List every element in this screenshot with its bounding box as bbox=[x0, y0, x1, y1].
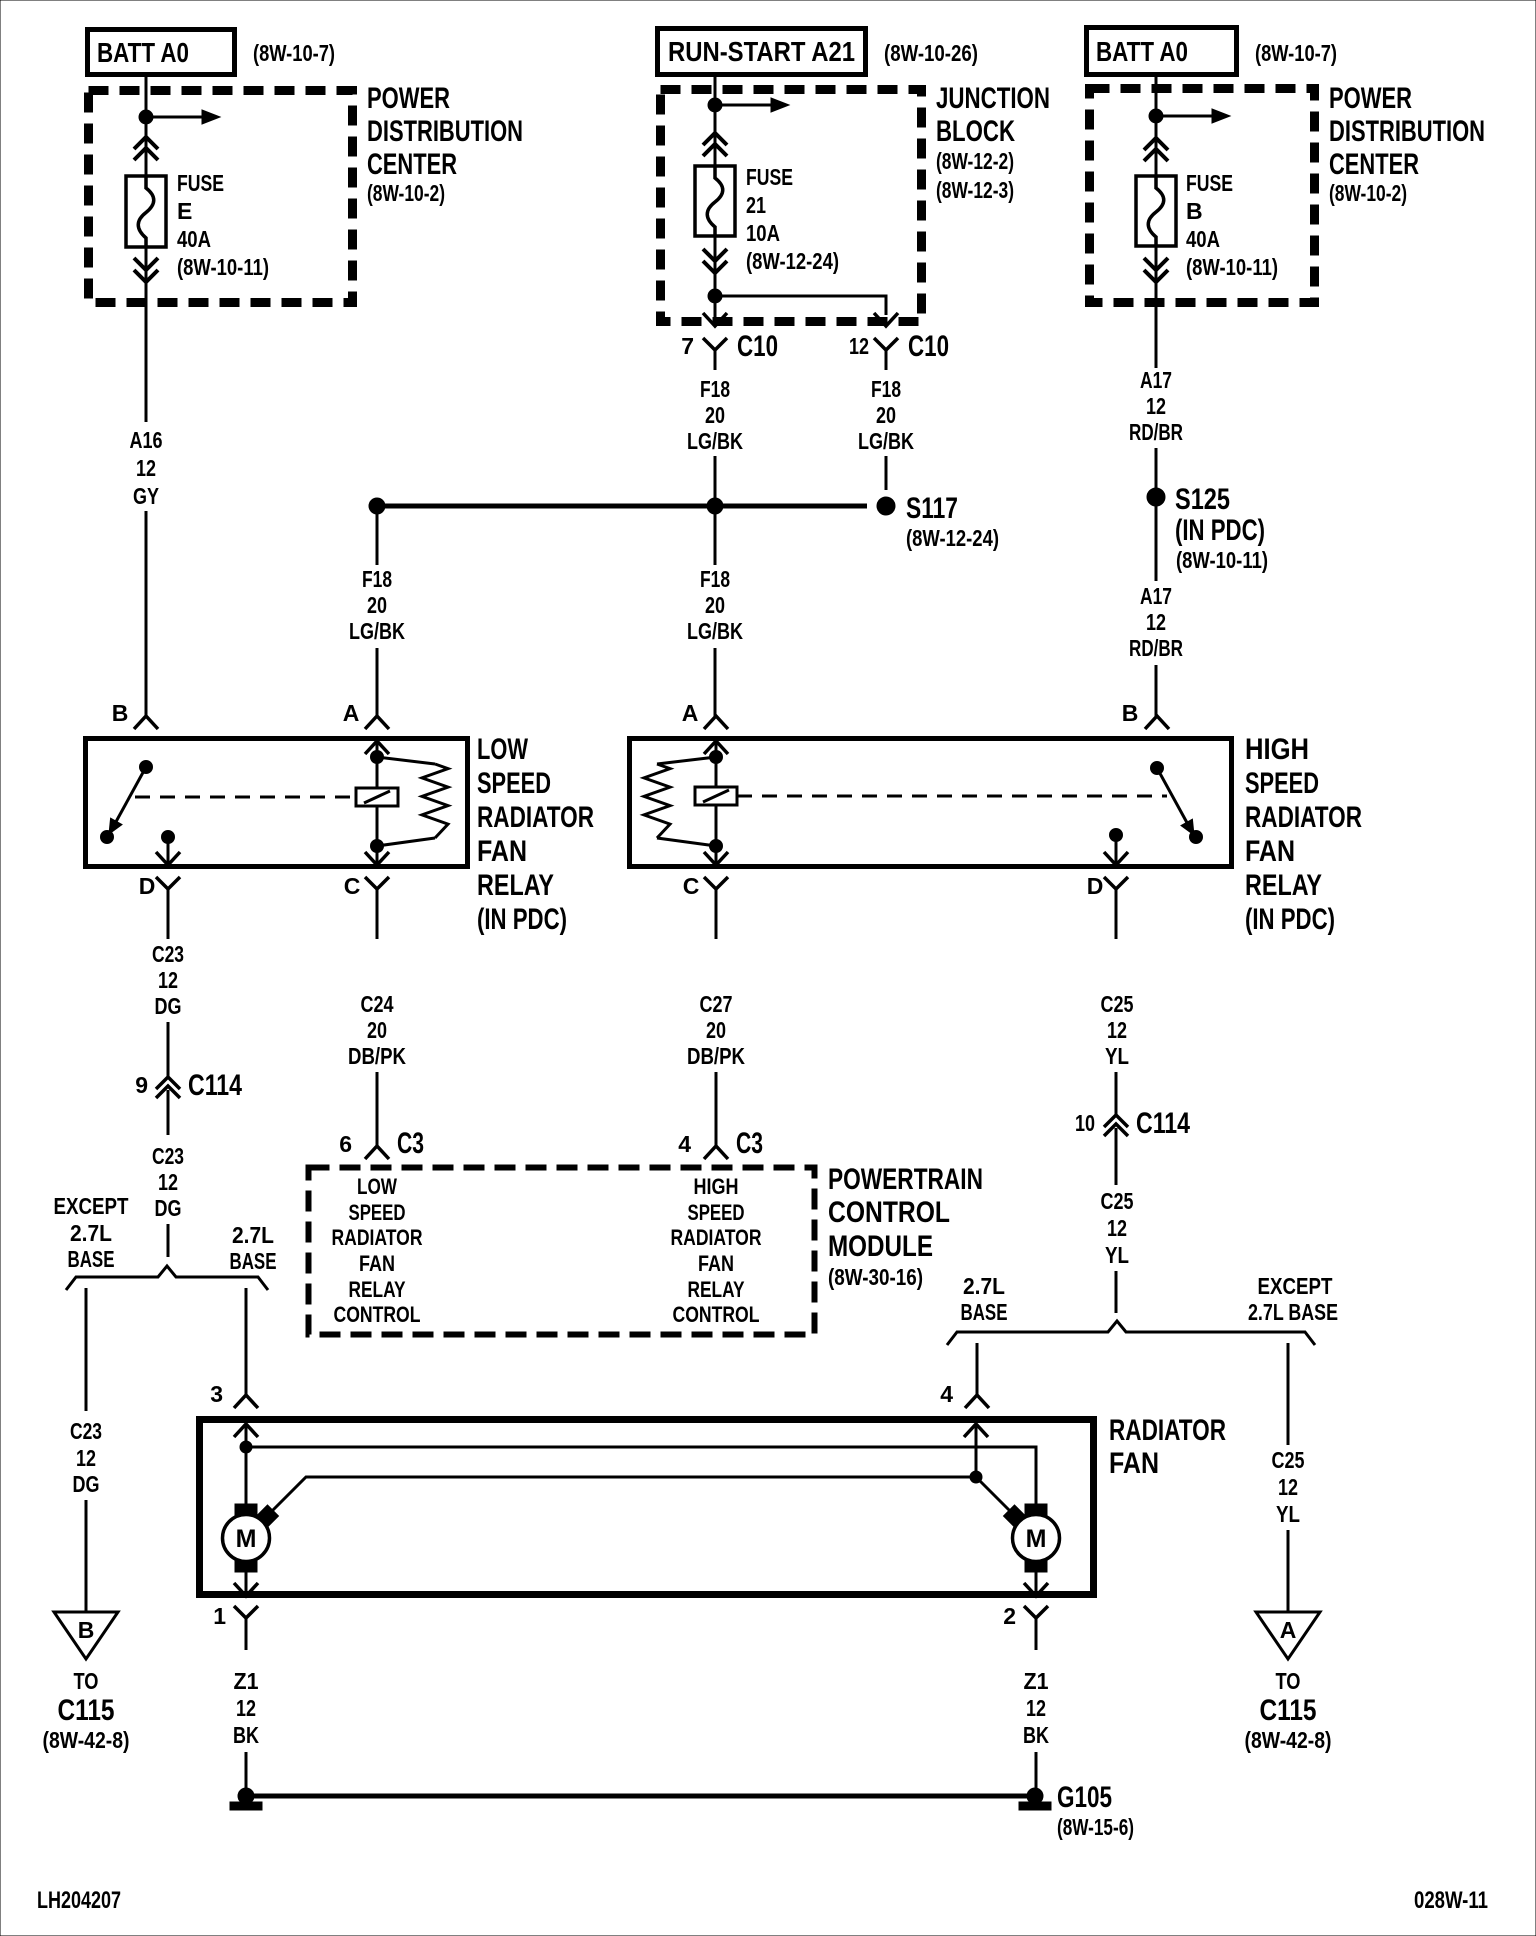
wire pin D to relay edge bbox=[167, 837, 170, 864]
svg-text:(IN PDC): (IN PDC) bbox=[477, 903, 567, 936]
svg-text:4: 4 bbox=[940, 1381, 953, 1407]
connector C10 pin 7 bbox=[703, 338, 727, 350]
svg-text:RADIATOR: RADIATOR bbox=[477, 801, 594, 834]
splice S117 dot bbox=[877, 497, 895, 515]
svg-text:C24: C24 bbox=[361, 991, 394, 1017]
svg-text:C25: C25 bbox=[1101, 991, 1134, 1017]
svg-text:M: M bbox=[236, 1525, 257, 1553]
connector triangle A bbox=[1256, 1612, 1320, 1659]
svg-text:CONTROL: CONTROL bbox=[828, 1196, 950, 1229]
svg-text:2.7L: 2.7L bbox=[70, 1220, 112, 1246]
out-connector chevrons (junction block bottom) bbox=[703, 249, 727, 261]
pin 4 wire-end legs at PCM bbox=[704, 1146, 728, 1159]
svg-text:A17: A17 bbox=[1140, 367, 1172, 393]
svg-text:BATT A0: BATT A0 bbox=[1096, 36, 1188, 67]
svg-text:12: 12 bbox=[236, 1695, 256, 1721]
connector Y at pin D (low speed relay) bbox=[156, 877, 180, 889]
svg-text:LH204207: LH204207 bbox=[37, 1887, 121, 1914]
wire C10-12 to splice S117 bbox=[885, 456, 888, 490]
svg-text:C115: C115 bbox=[1260, 1694, 1317, 1727]
svg-text:40A: 40A bbox=[1186, 226, 1220, 252]
svg-text:2.7L BASE: 2.7L BASE bbox=[1248, 1299, 1338, 1325]
svg-text:12: 12 bbox=[1107, 1017, 1127, 1043]
variant split bracket (right) bbox=[947, 1321, 1315, 1345]
ground bus wire to G105 bbox=[246, 1794, 1035, 1799]
junction dot pin 3 branch bbox=[240, 1441, 252, 1453]
wire S125 down bbox=[1155, 505, 1158, 581]
pin A arrowhead inside low speed relay bbox=[365, 741, 389, 754]
svg-text:RD/BR: RD/BR bbox=[1129, 635, 1183, 661]
svg-text:B: B bbox=[1186, 198, 1203, 224]
svg-text:RD/BR: RD/BR bbox=[1129, 419, 1183, 445]
svg-text:(8W-15-6): (8W-15-6) bbox=[1057, 1814, 1134, 1840]
svg-text:TO: TO bbox=[74, 1668, 99, 1694]
svg-text:4: 4 bbox=[678, 1131, 691, 1157]
svg-text:FAN: FAN bbox=[359, 1251, 395, 1276]
pin D arrowhead at relay edge bbox=[156, 852, 180, 865]
wire pin A to relay coil (high speed) bbox=[715, 741, 718, 787]
branch arrow to other circuits (junction block) bbox=[715, 104, 773, 107]
svg-text:10A: 10A bbox=[746, 220, 780, 246]
svg-text:(8W-10-2): (8W-10-2) bbox=[1329, 180, 1407, 206]
svg-text:(8W-10-11): (8W-10-11) bbox=[1176, 547, 1268, 573]
wire Z1 to ground G105 (right) bbox=[1035, 1752, 1038, 1790]
svg-text:C10: C10 bbox=[737, 330, 778, 363]
switch contact dot (high speed relay) bbox=[1190, 831, 1203, 844]
fuse 21 10A bbox=[695, 166, 735, 236]
svg-text:F18: F18 bbox=[362, 566, 392, 592]
svg-text:(8W-42-8): (8W-42-8) bbox=[1245, 1727, 1332, 1753]
svg-text:LG/BK: LG/BK bbox=[687, 428, 743, 454]
power source box BATT A0 (right) bbox=[1087, 28, 1237, 75]
svg-text:6: 6 bbox=[339, 1131, 352, 1157]
svg-text:YL: YL bbox=[1105, 1043, 1129, 1069]
svg-text:BK: BK bbox=[1023, 1722, 1049, 1748]
svg-text:DG: DG bbox=[155, 993, 182, 1019]
fuse E 40A bbox=[126, 176, 166, 247]
svg-text:DISTRIBUTION: DISTRIBUTION bbox=[1329, 115, 1485, 148]
wire coil to bottom junction (low speed) bbox=[376, 806, 379, 846]
svg-text:12: 12 bbox=[158, 1169, 178, 1195]
relay control dashed linkage (low speed) bbox=[135, 796, 356, 799]
svg-text:DISTRIBUTION: DISTRIBUTION bbox=[367, 115, 523, 148]
svg-text:028W-11: 028W-11 bbox=[1414, 1887, 1488, 1914]
relay control dashed linkage (high speed) bbox=[737, 795, 1167, 798]
connector Y at pin D (high speed relay) bbox=[1104, 877, 1128, 889]
svg-text:(8W-10-26): (8W-10-26) bbox=[884, 40, 978, 66]
svg-text:12: 12 bbox=[1146, 609, 1166, 635]
splice S125 dot bbox=[1147, 488, 1165, 506]
relay coil (high speed) bbox=[695, 787, 737, 805]
wire C10-7 to splice S117 bbox=[714, 456, 717, 506]
svg-text:DB/PK: DB/PK bbox=[348, 1043, 406, 1069]
svg-text:E: E bbox=[177, 198, 192, 224]
svg-text:(8W-12-2): (8W-12-2) bbox=[936, 148, 1014, 174]
pin 4 wire-end legs at fan box bbox=[965, 1395, 989, 1408]
wire BATT A0 into PDC bbox=[145, 74, 148, 117]
pin 4 arrowhead inside fan box bbox=[964, 1424, 988, 1437]
svg-text:FAN: FAN bbox=[1245, 835, 1295, 868]
connector Y at pin C (low speed relay) bbox=[365, 877, 389, 889]
svg-text:POWERTRAIN: POWERTRAIN bbox=[828, 1163, 983, 1196]
svg-text:GY: GY bbox=[133, 483, 159, 509]
out-connector chevrons (left PDC bottom) bbox=[134, 258, 158, 270]
svg-text:(8W-10-2): (8W-10-2) bbox=[367, 180, 445, 206]
relay coil (low speed) bbox=[356, 788, 398, 806]
svg-text:(8W-10-7): (8W-10-7) bbox=[1255, 40, 1337, 66]
svg-text:DG: DG bbox=[73, 1471, 100, 1497]
wire fuse 21 to splice point bbox=[714, 236, 717, 296]
power distribution center dashed box (left) bbox=[89, 91, 353, 303]
arrowhead into junction block edge at pin 7 bbox=[703, 313, 727, 326]
pin 6 wire-end legs at PCM bbox=[365, 1146, 389, 1159]
pin D junction dot (high speed relay) bbox=[1110, 829, 1123, 842]
svg-text:CENTER: CENTER bbox=[367, 148, 457, 181]
svg-text:A: A bbox=[682, 700, 699, 726]
svg-text:BATT A0: BATT A0 bbox=[97, 37, 189, 68]
svg-text:EXCEPT: EXCEPT bbox=[54, 1193, 129, 1219]
svg-text:12: 12 bbox=[158, 967, 178, 993]
junction dot high speed relay coil bottom bbox=[710, 840, 723, 853]
svg-text:12: 12 bbox=[1278, 1474, 1298, 1500]
svg-text:F18: F18 bbox=[700, 566, 730, 592]
svg-text:B: B bbox=[112, 700, 129, 726]
svg-text:RUN-START A21: RUN-START A21 bbox=[668, 36, 855, 67]
svg-text:F18: F18 bbox=[700, 376, 730, 402]
pin 3 arrowhead inside fan box bbox=[234, 1424, 258, 1437]
branch arrow to other circuits (left PDC) bbox=[146, 116, 204, 119]
out-connector chevrons (junction block top) bbox=[703, 133, 727, 145]
svg-text:C114: C114 bbox=[1136, 1107, 1190, 1140]
out-connector chevrons (left PDC top) bbox=[134, 137, 158, 149]
svg-text:JUNCTION: JUNCTION bbox=[936, 82, 1050, 115]
svg-text:RELAY: RELAY bbox=[349, 1277, 406, 1302]
wire C114-9 down bbox=[167, 1090, 170, 1135]
svg-text:FUSE: FUSE bbox=[177, 170, 224, 196]
svg-text:(8W-12-3): (8W-12-3) bbox=[936, 177, 1014, 203]
svg-text:FAN: FAN bbox=[477, 835, 527, 868]
svg-text:21: 21 bbox=[746, 192, 766, 218]
pin 2 arrowhead at fan box edge bbox=[1024, 1583, 1048, 1596]
svg-text:D: D bbox=[139, 873, 156, 899]
in-line connector C114 pin 9 chevrons bbox=[156, 1077, 180, 1089]
svg-text:7: 7 bbox=[681, 333, 694, 359]
svg-text:12: 12 bbox=[1026, 1695, 1046, 1721]
wire RUN-START into junction block bbox=[714, 74, 717, 166]
junction dot middle of S117 bus bbox=[707, 498, 723, 514]
connector Y at pin C (high speed relay) bbox=[704, 877, 728, 889]
svg-text:(8W-12-24): (8W-12-24) bbox=[746, 248, 839, 274]
connector triangle B bbox=[54, 1612, 118, 1659]
svg-text:C23: C23 bbox=[152, 941, 184, 967]
svg-text:20: 20 bbox=[705, 402, 725, 428]
svg-text:LG/BK: LG/BK bbox=[687, 618, 743, 644]
connector C10 pin 12 bbox=[874, 338, 898, 350]
svg-text:A16: A16 bbox=[130, 427, 163, 453]
svg-text:C23: C23 bbox=[70, 1418, 102, 1444]
svg-text:BLOCK: BLOCK bbox=[936, 115, 1015, 148]
switch arm (low speed relay) bbox=[112, 767, 146, 829]
svg-text:2.7L: 2.7L bbox=[232, 1222, 274, 1248]
pin A arrowhead inside high speed relay bbox=[704, 741, 728, 754]
suppression resistor (low speed relay) bbox=[377, 757, 435, 764]
svg-text:40A: 40A bbox=[177, 226, 211, 252]
wire pin A to relay coil bbox=[376, 741, 379, 788]
wire except-2.7L branch down (right) bbox=[1287, 1343, 1290, 1445]
wire C24 to PCM pin 6 bbox=[376, 1072, 379, 1146]
wire left motor brush to junction bbox=[271, 1477, 976, 1512]
wire A17 to splice S125 bbox=[1155, 448, 1158, 489]
svg-text:EXCEPT: EXCEPT bbox=[1258, 1273, 1333, 1299]
pin A wire-end legs at high speed relay bbox=[704, 716, 728, 729]
fan motor M (right) bbox=[1013, 1515, 1060, 1562]
junction dot pin 4 branch bbox=[970, 1471, 982, 1483]
svg-text:FAN: FAN bbox=[698, 1251, 734, 1276]
svg-text:A: A bbox=[343, 700, 360, 726]
svg-text:C25: C25 bbox=[1272, 1447, 1305, 1473]
wire coil to bottom junction (high speed) bbox=[715, 805, 718, 846]
in-line connector C114 pin 10 chevrons bbox=[1104, 1115, 1128, 1127]
out-connector chevrons (right PDC top) bbox=[1144, 138, 1168, 150]
svg-text:2.7L: 2.7L bbox=[963, 1273, 1005, 1299]
pin C arrowhead at relay edge (high speed) bbox=[715, 846, 718, 864]
variant split bracket (left) bbox=[66, 1266, 268, 1290]
svg-text:CONTROL: CONTROL bbox=[334, 1302, 421, 1327]
svg-text:CONTROL: CONTROL bbox=[673, 1302, 760, 1327]
wire 2.7L-base branch to fan pin 4 bbox=[976, 1343, 979, 1395]
fuse B 40A bbox=[1136, 176, 1176, 246]
svg-text:LG/BK: LG/BK bbox=[349, 618, 405, 644]
svg-text:YL: YL bbox=[1276, 1501, 1300, 1527]
svg-text:G105: G105 bbox=[1057, 1781, 1112, 1814]
svg-text:M: M bbox=[1026, 1525, 1047, 1553]
wire branch to pin 12 of C10 bbox=[715, 296, 886, 315]
svg-text:BK: BK bbox=[233, 1722, 259, 1748]
junction dot left end of S117 bus bbox=[369, 498, 385, 514]
svg-text:RADIATOR: RADIATOR bbox=[332, 1225, 423, 1250]
pin B wire-end legs at low speed relay bbox=[134, 716, 158, 729]
svg-text:MODULE: MODULE bbox=[828, 1230, 933, 1263]
wire A16 down to low speed relay pin B bbox=[145, 511, 148, 716]
svg-text:BASE: BASE bbox=[68, 1246, 115, 1272]
wire to connector triangle B bbox=[85, 1500, 88, 1612]
svg-text:SPEED: SPEED bbox=[688, 1200, 745, 1225]
wire left motor to pin 1 bbox=[245, 1571, 248, 1594]
junction dot switch pivot (high speed relay) bbox=[1151, 762, 1164, 775]
svg-text:FUSE: FUSE bbox=[746, 164, 793, 190]
svg-text:LOW: LOW bbox=[477, 733, 528, 766]
svg-text:12: 12 bbox=[849, 333, 869, 359]
svg-text:20: 20 bbox=[705, 592, 725, 618]
low speed radiator fan relay box bbox=[86, 739, 468, 867]
svg-text:BASE: BASE bbox=[961, 1299, 1008, 1325]
junction dot low speed relay coil top bbox=[371, 751, 384, 764]
power distribution center dashed box (right) bbox=[1090, 89, 1315, 303]
svg-text:(8W-10-11): (8W-10-11) bbox=[177, 254, 269, 280]
svg-text:(IN PDC): (IN PDC) bbox=[1245, 903, 1335, 936]
svg-text:POWER: POWER bbox=[1329, 82, 1412, 115]
svg-text:(8W-30-16): (8W-30-16) bbox=[828, 1264, 923, 1290]
wire 2.7L-base branch to fan pin 3 bbox=[245, 1288, 248, 1395]
arrowhead into junction block edge at pin 12 bbox=[874, 313, 898, 326]
svg-text:C114: C114 bbox=[188, 1069, 242, 1102]
wire C114-10 down bbox=[1115, 1128, 1118, 1185]
svg-text:20: 20 bbox=[706, 1017, 726, 1043]
wire C25 to variant split (right) bbox=[1115, 1271, 1118, 1313]
svg-text:B: B bbox=[1122, 700, 1139, 726]
svg-text:20: 20 bbox=[367, 592, 387, 618]
switch arm (high speed relay) bbox=[1157, 768, 1191, 830]
svg-text:9: 9 bbox=[135, 1072, 148, 1098]
wire fuse B to PDC exit bbox=[1155, 246, 1158, 368]
svg-text:Z1: Z1 bbox=[1024, 1668, 1049, 1694]
connector Y at pin 2 bbox=[1024, 1606, 1048, 1618]
svg-text:F18: F18 bbox=[871, 376, 901, 402]
node/junction dot in left PDC bbox=[139, 110, 153, 124]
svg-text:3: 3 bbox=[210, 1381, 223, 1407]
svg-text:BASE: BASE bbox=[230, 1248, 277, 1274]
svg-text:RADIATOR: RADIATOR bbox=[1245, 801, 1362, 834]
wire C27 to PCM pin 4 bbox=[715, 1072, 718, 1146]
svg-text:C27: C27 bbox=[700, 991, 733, 1017]
junction dot low speed relay coil bottom bbox=[371, 840, 384, 853]
wire fuse E to PDC exit bbox=[145, 247, 148, 422]
svg-text:RELAY: RELAY bbox=[477, 869, 554, 902]
svg-text:RADIATOR: RADIATOR bbox=[1109, 1414, 1226, 1447]
wire pin D to relay edge (high speed) bbox=[1115, 835, 1118, 864]
splice S117 bus wire bbox=[377, 504, 867, 509]
svg-text:(8W-10-7): (8W-10-7) bbox=[253, 40, 335, 66]
junction dot high speed relay coil top bbox=[710, 751, 723, 764]
junction dot below fuse 21 bbox=[708, 289, 722, 303]
suppression resistor (high speed relay) bbox=[657, 757, 716, 764]
svg-text:FAN: FAN bbox=[1109, 1447, 1159, 1480]
wire dot to fuse E bbox=[145, 117, 148, 176]
wire Z1 to ground G105 (left) bbox=[245, 1752, 248, 1790]
out-connector chevrons (right PDC bottom) bbox=[1144, 258, 1168, 270]
fan motor M (left) bbox=[223, 1515, 270, 1562]
switch contact dot (low speed relay) bbox=[101, 831, 114, 844]
svg-text:C25: C25 bbox=[1101, 1188, 1134, 1214]
svg-text:20: 20 bbox=[367, 1017, 387, 1043]
svg-text:SPEED: SPEED bbox=[1245, 767, 1319, 800]
wire to connector triangle A bbox=[1287, 1530, 1290, 1612]
power source box RUN-START A21 bbox=[658, 29, 866, 75]
radiator fan box bbox=[200, 1420, 1094, 1595]
svg-text:YL: YL bbox=[1105, 1242, 1129, 1268]
svg-text:(IN PDC): (IN PDC) bbox=[1175, 514, 1265, 547]
svg-text:TO: TO bbox=[1276, 1668, 1301, 1694]
svg-text:CENTER: CENTER bbox=[1329, 148, 1419, 181]
svg-text:(8W-12-24): (8W-12-24) bbox=[906, 525, 999, 551]
svg-text:SPEED: SPEED bbox=[349, 1200, 406, 1225]
svg-text:C3: C3 bbox=[397, 1127, 424, 1160]
svg-text:RADIATOR: RADIATOR bbox=[671, 1225, 762, 1250]
svg-text:RELAY: RELAY bbox=[688, 1277, 745, 1302]
svg-text:C115: C115 bbox=[58, 1694, 115, 1727]
wire A17 to high speed relay pin B bbox=[1155, 665, 1158, 716]
svg-text:2: 2 bbox=[1003, 1603, 1016, 1629]
svg-text:S125: S125 bbox=[1175, 483, 1230, 516]
high speed radiator fan relay box bbox=[630, 739, 1232, 867]
svg-text:C: C bbox=[683, 873, 700, 899]
wire junction to right motor brush bbox=[976, 1477, 1010, 1511]
svg-text:1: 1 bbox=[213, 1603, 226, 1629]
node/junction dot in junction block bbox=[708, 98, 722, 112]
svg-text:(8W-10-11): (8W-10-11) bbox=[1186, 254, 1278, 280]
svg-text:(8W-42-8): (8W-42-8) bbox=[43, 1727, 130, 1753]
wire BATT A0 into right PDC bbox=[1155, 74, 1158, 176]
svg-text:FUSE: FUSE bbox=[1186, 170, 1233, 196]
svg-text:C: C bbox=[344, 873, 361, 899]
svg-text:B: B bbox=[78, 1617, 95, 1643]
svg-text:LOW: LOW bbox=[357, 1174, 397, 1199]
svg-text:20: 20 bbox=[876, 402, 896, 428]
svg-text:A17: A17 bbox=[1140, 583, 1172, 609]
wire S117 to low speed relay pin A bbox=[376, 506, 379, 565]
svg-text:12: 12 bbox=[76, 1445, 96, 1471]
pin 3 wire-end legs at fan box bbox=[234, 1395, 258, 1408]
svg-text:DB/PK: DB/PK bbox=[687, 1043, 745, 1069]
branch arrow to other circuits (right PDC) bbox=[1156, 115, 1214, 118]
wire right motor to pin 2 bbox=[1035, 1571, 1038, 1594]
junction block dashed box bbox=[661, 90, 922, 322]
pin A wire-end legs at low speed relay bbox=[365, 716, 389, 729]
wire C23 to connector C114 pin 9 bbox=[167, 1022, 170, 1077]
pin D arrowhead at relay edge (high speed) bbox=[1104, 852, 1128, 865]
pin D junction dot (low speed relay) bbox=[162, 831, 175, 844]
svg-text:A: A bbox=[1280, 1617, 1297, 1643]
wire crossover to right motor feed bbox=[246, 1447, 1036, 1504]
ground symbol at left fan motor bbox=[238, 1788, 254, 1804]
svg-text:RELAY: RELAY bbox=[1245, 869, 1322, 902]
svg-text:C10: C10 bbox=[908, 330, 949, 363]
svg-text:C3: C3 bbox=[736, 1127, 763, 1160]
svg-text:S117: S117 bbox=[906, 492, 958, 525]
svg-text:Z1: Z1 bbox=[234, 1668, 259, 1694]
power source box BATT A0 (left) bbox=[88, 30, 235, 75]
pin B wire-end legs at high speed relay bbox=[1145, 716, 1169, 729]
node/junction dot in right PDC bbox=[1149, 109, 1163, 123]
pin 1 arrowhead at fan box edge bbox=[234, 1583, 258, 1596]
junction dot switch pivot (low speed relay) bbox=[140, 761, 153, 774]
wire C25 to connector C114 pin 10 bbox=[1115, 1072, 1118, 1115]
wire pin 3 to left motor bbox=[245, 1424, 248, 1504]
svg-text:12: 12 bbox=[1146, 393, 1166, 419]
svg-text:HIGH: HIGH bbox=[1245, 733, 1309, 766]
wire S117 to high speed relay pin A bbox=[714, 506, 717, 565]
svg-text:12: 12 bbox=[1107, 1215, 1127, 1241]
powertrain control module dashed box bbox=[309, 1168, 815, 1335]
svg-text:LG/BK: LG/BK bbox=[858, 428, 914, 454]
svg-text:SPEED: SPEED bbox=[477, 767, 551, 800]
wire C23 to variant split bbox=[167, 1224, 170, 1257]
wire pin 4 down to junction bbox=[975, 1424, 978, 1477]
svg-text:10: 10 bbox=[1075, 1110, 1095, 1136]
svg-text:C23: C23 bbox=[152, 1143, 184, 1169]
svg-text:HIGH: HIGH bbox=[694, 1174, 739, 1199]
svg-text:POWER: POWER bbox=[367, 82, 450, 115]
connector Y at pin 1 bbox=[234, 1606, 258, 1618]
svg-text:DG: DG bbox=[155, 1195, 182, 1221]
pin C arrowhead at relay edge (low speed) bbox=[376, 846, 379, 864]
ground G105 symbol bbox=[1027, 1788, 1043, 1804]
wire junction dot to pin 7 of C10 bbox=[714, 296, 717, 320]
wire except-2.7L branch down bbox=[85, 1288, 88, 1411]
svg-text:12: 12 bbox=[136, 455, 156, 481]
svg-text:D: D bbox=[1087, 873, 1104, 899]
